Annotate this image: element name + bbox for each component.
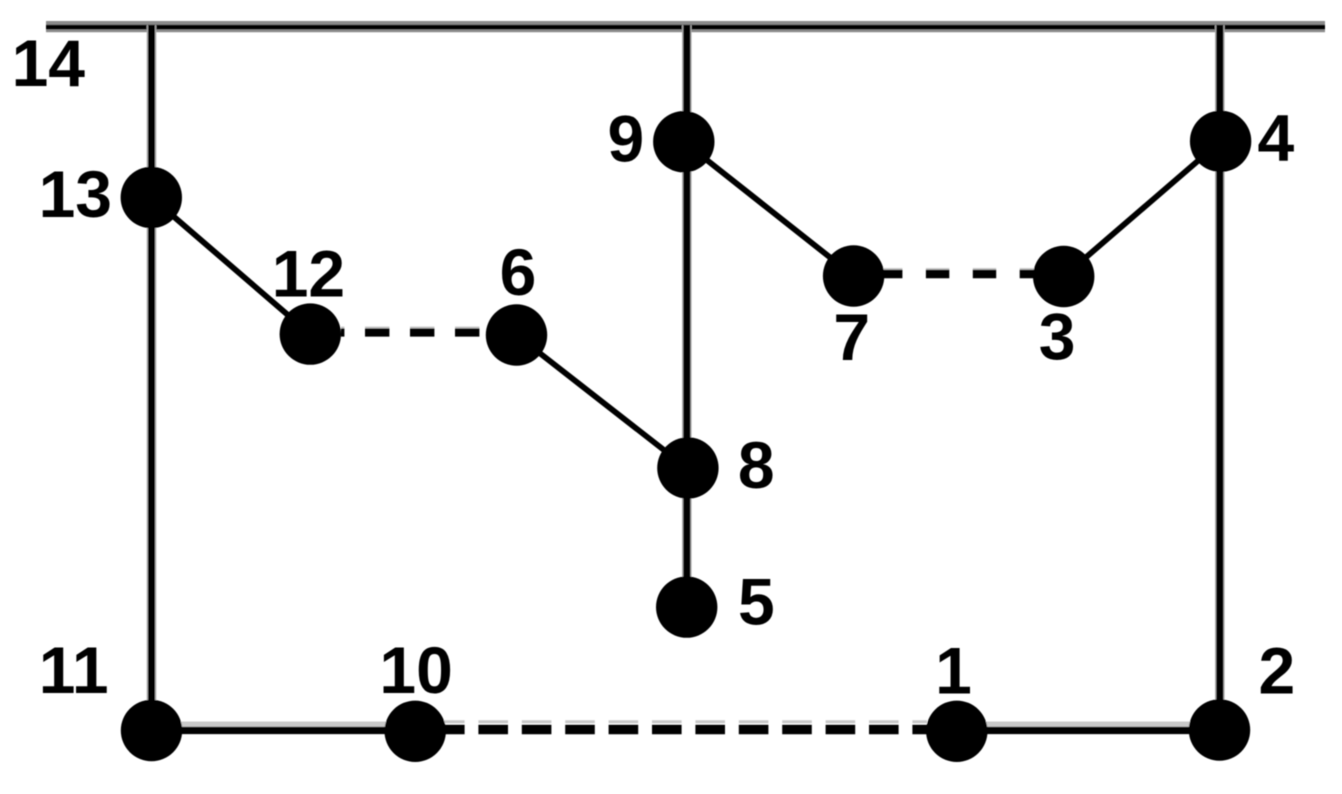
wire: right vertical 14-4-2 halo bbox=[1215, 25, 1225, 730]
svg-text:3: 3 bbox=[1039, 300, 1076, 374]
svg-text:11: 11 bbox=[39, 633, 109, 707]
wire: middle vertical 14-9-8-5 halo bbox=[682, 25, 692, 607]
edge 10-1 dashed halo bbox=[444, 720, 927, 723]
node 7 bbox=[823, 245, 884, 306]
edge 7-3 dashed halo bbox=[879, 268, 1040, 271]
svg-text:12: 12 bbox=[272, 236, 345, 310]
svg-text:10: 10 bbox=[379, 633, 452, 707]
wire: right vertical 14-4-2 bbox=[1216, 25, 1223, 730]
node 1 bbox=[926, 701, 987, 762]
edge 3-4 bbox=[1064, 141, 1221, 276]
edge 6-8 bbox=[517, 335, 688, 468]
node 12 bbox=[280, 303, 341, 364]
svg-text:4: 4 bbox=[1257, 100, 1294, 174]
svg-text:7: 7 bbox=[833, 300, 870, 374]
node 5 bbox=[656, 576, 717, 637]
svg-text:13: 13 bbox=[39, 157, 112, 231]
node 3 bbox=[1033, 246, 1094, 307]
svg-text:2: 2 bbox=[1258, 634, 1295, 708]
edge 10-1 dashed bbox=[444, 725, 927, 735]
svg-text:6: 6 bbox=[500, 235, 537, 309]
edge 12-6 dashed bbox=[341, 328, 487, 336]
edge 12-6 dashed halo bbox=[341, 327, 487, 330]
node 8 bbox=[657, 437, 718, 498]
svg-text:9: 9 bbox=[608, 102, 645, 176]
edge 1-2 bbox=[957, 727, 1219, 734]
edge 1-2 halo bbox=[957, 722, 1219, 727]
edge 11-10 bbox=[151, 727, 415, 734]
node 9 bbox=[653, 111, 714, 172]
edge 9-7 bbox=[684, 142, 854, 276]
edge 13-12 bbox=[151, 197, 310, 334]
node 6 bbox=[486, 304, 547, 365]
node 10 bbox=[385, 701, 446, 762]
edge 11-10 halo bbox=[151, 722, 415, 727]
edge 7-3 dashed bbox=[879, 270, 1040, 279]
wire: left vertical 14-13-11 halo bbox=[147, 25, 157, 730]
node 13 bbox=[121, 167, 182, 228]
svg-text:8: 8 bbox=[738, 428, 775, 502]
svg-text:1: 1 bbox=[935, 634, 972, 708]
node 11 bbox=[121, 700, 182, 761]
wire: left vertical 14-13-11 bbox=[148, 25, 155, 730]
top bus line halo (node 14 bar) bbox=[46, 21, 1325, 32]
top bus line (node 14 bar) bbox=[46, 25, 1325, 30]
svg-text:5: 5 bbox=[738, 564, 775, 638]
node 4 bbox=[1190, 111, 1251, 172]
svg-text:14: 14 bbox=[12, 26, 86, 100]
node 2 bbox=[1189, 699, 1250, 760]
wire: middle vertical 14-9-8-5 bbox=[683, 25, 690, 607]
